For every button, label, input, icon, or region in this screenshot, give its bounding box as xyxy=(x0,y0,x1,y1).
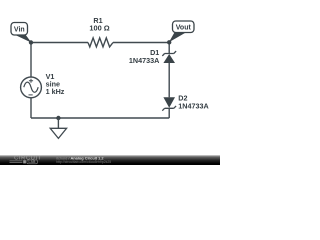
wire top-left horizontal (node A to R1 left lead) xyxy=(31,42,88,44)
wire top-right horizontal (R1 right lead to node B) xyxy=(113,42,169,44)
wire node B down to D1 cathode xyxy=(168,42,170,53)
V1 plus sign xyxy=(29,79,33,83)
flag Vout xyxy=(169,21,194,42)
footer logo flask icon xyxy=(23,160,26,163)
footer logo lines xyxy=(10,161,23,163)
footer logo LAB box xyxy=(27,160,37,164)
svg-text:1 kHz: 1 kHz xyxy=(46,87,65,96)
node A junction dot xyxy=(29,40,33,44)
wire V1 bottom to ground rail xyxy=(30,98,32,118)
wire bottom rail xyxy=(31,117,169,119)
flag Vin xyxy=(11,23,31,43)
diode D2 (zener, cathode down) xyxy=(162,97,176,110)
svg-text:1N4733A: 1N4733A xyxy=(178,101,208,110)
ground symbol triangle xyxy=(50,128,66,138)
svg-text:Vin: Vin xyxy=(14,27,25,34)
svg-text:1N4733A: 1N4733A xyxy=(129,56,159,65)
resistor R1 zigzag body xyxy=(88,38,113,47)
svg-text:http://circuitlab.com/c6uu5rh9: http://circuitlab.com/c6uu5rh9p2k25 xyxy=(56,160,111,164)
ground stem wire xyxy=(57,118,59,128)
footer watermark bar xyxy=(0,155,220,165)
wire D1 anode to D2 anode xyxy=(168,63,170,97)
V1 sine wave xyxy=(24,82,38,92)
source V1 circle xyxy=(21,77,42,98)
wire left vertical (node A to V1 top) xyxy=(30,43,32,78)
wire D2 cathode to bottom rail xyxy=(168,108,170,118)
diode D1 (zener, cathode up) xyxy=(162,51,176,63)
ground junction dot xyxy=(56,116,60,120)
V1 minus sign xyxy=(29,94,33,96)
node B junction dot xyxy=(167,40,171,44)
svg-text:LAB: LAB xyxy=(28,160,36,164)
svg-text:Vout: Vout xyxy=(176,25,192,32)
svg-text:100 Ω: 100 Ω xyxy=(89,24,109,33)
